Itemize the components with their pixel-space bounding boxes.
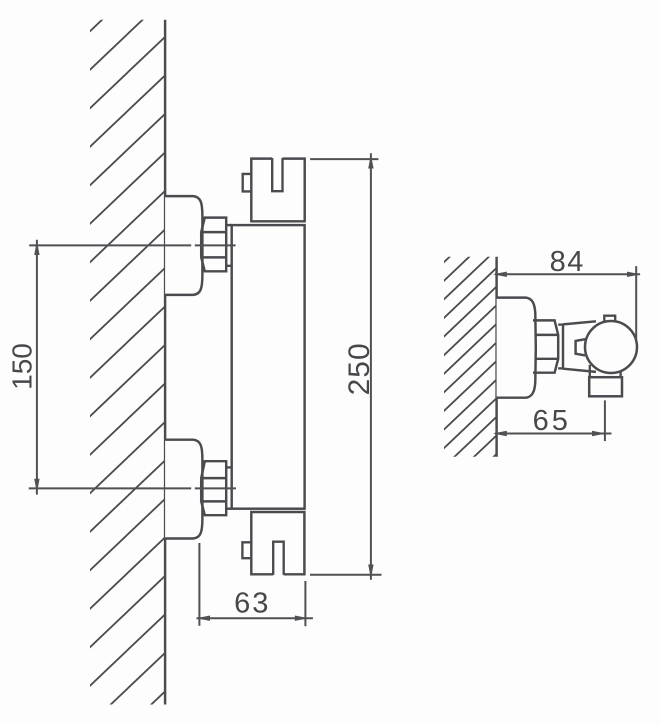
upper inlet hex nut (front view) xyxy=(201,218,226,272)
63 left extension line xyxy=(198,543,200,626)
wall face line (front view) xyxy=(164,20,166,705)
svg-text:250: 250 xyxy=(343,342,376,395)
63 right extension line xyxy=(304,581,306,626)
tab on bottom block xyxy=(242,542,251,558)
outlet neck lines xyxy=(590,365,621,377)
250 bottom extension line xyxy=(310,574,382,576)
svg-text:63: 63 xyxy=(234,588,270,620)
mixer body (front view) xyxy=(226,225,304,509)
connector stem (side view) xyxy=(558,325,563,369)
arrowheads 150 xyxy=(34,241,39,493)
hex nut (side view) xyxy=(533,320,558,372)
control knob (side view) xyxy=(585,321,637,373)
tab on top of knob xyxy=(604,316,615,323)
escutcheon (side view) xyxy=(497,298,536,398)
svg-text:150: 150 xyxy=(7,343,38,390)
valve body (side view) xyxy=(563,321,596,372)
84 right extension line xyxy=(635,266,637,339)
shower outlet box (side view) xyxy=(589,377,622,396)
label 84 xyxy=(550,246,585,278)
65 right extension line xyxy=(604,400,606,441)
svg-text:84: 84 xyxy=(550,246,585,278)
bottom connector block (front view) xyxy=(251,512,304,574)
wall hatch (front view) xyxy=(88,0,166,724)
lower escutcheon (front view) xyxy=(165,440,202,539)
wall hatch (side view) xyxy=(442,211,498,506)
svg-text:65: 65 xyxy=(533,405,571,437)
upper connector stem (front view) xyxy=(226,265,232,267)
label 65 xyxy=(533,405,571,437)
dimension line 65 xyxy=(495,433,612,435)
temperature button (side view) xyxy=(576,339,586,355)
slot in top block xyxy=(272,158,282,191)
top shower-pipe connector block (front view) xyxy=(251,159,304,222)
arrowheads 63 xyxy=(196,616,309,621)
dimension line 84 xyxy=(495,273,640,275)
dimension line 150 xyxy=(36,240,38,495)
upper escutcheon (front view) xyxy=(165,196,202,295)
arrowheads 65 xyxy=(493,431,606,436)
arrowheads 250 xyxy=(368,155,373,579)
label 63 xyxy=(234,588,270,620)
lower connector stem (front view) xyxy=(226,466,232,468)
lower inlet hex nut (front view) xyxy=(201,461,226,515)
dimension line 63 xyxy=(197,617,313,619)
upper centerline / 150 top extension xyxy=(29,244,235,246)
label 250 xyxy=(343,342,376,395)
tab on top block xyxy=(243,174,252,192)
label 150 xyxy=(7,343,38,390)
slot in bottom block xyxy=(273,542,284,575)
250 top extension line xyxy=(310,158,378,160)
arrowheads 84 xyxy=(493,272,641,277)
dimension line 250 xyxy=(370,153,372,580)
lower centerline / 150 bottom extension xyxy=(29,487,236,489)
wall face line (side view) xyxy=(495,257,497,457)
